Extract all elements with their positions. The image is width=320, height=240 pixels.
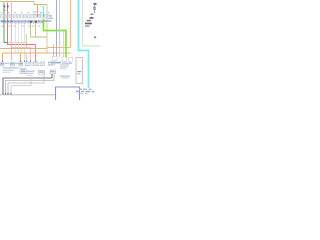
ground wire dark bbox=[3, 74, 52, 93]
text under cyan end bbox=[76, 89, 94, 95]
wire gray nested 2 bbox=[6, 75, 55, 94]
wire cyan drop x43.5 bbox=[43, 6, 45, 15]
wire CYAN bbox=[79, 0, 89, 88]
connector bottom-middle band bbox=[26, 62, 52, 66]
connector top band text row bbox=[0, 20, 50, 23]
pin dots under mid connectors bbox=[2, 61, 36, 62]
splice boxes above ground line bbox=[39, 70, 56, 74]
wire pale green bbox=[83, 0, 101, 46]
top band title text bbox=[3, 10, 5, 11]
wire ORANGE bus y53 bbox=[3, 52, 71, 54]
wire orange drop x20.5 bbox=[20, 53, 22, 61]
band density overlay bbox=[1, 15, 48, 17]
wire tan vertical x26.5 bbox=[26, 34, 28, 49]
wire tan vertical pair from top band bbox=[30, 23, 32, 37]
pins bottom-left bbox=[2, 93, 11, 95]
wire color labels under band bbox=[1, 25, 40, 26]
connector bottom-left text bbox=[1, 63, 22, 73]
band trailing text right bbox=[49, 15, 53, 22]
wire tan horizontal y48.5 bbox=[0, 48, 47, 50]
label text G200 area bbox=[60, 75, 70, 78]
wire pink branch y47.5 bbox=[12, 48, 31, 61]
wire TAN bus top bbox=[0, 2, 47, 5]
wire tan stub x26.5 lower bbox=[26, 53, 28, 61]
wire blue-gray verticals bbox=[56, 0, 58, 57]
connector bottom-left boxes bbox=[1, 62, 23, 66]
wire tan drop x47 bbox=[46, 5, 48, 54]
wire white drop x63.5 bbox=[63, 32, 65, 58]
wire pink-red drop x35.5 bbox=[35, 45, 37, 61]
box bottom-right blue bbox=[56, 87, 80, 101]
connector top band labels above bbox=[1, 12, 50, 13]
wire LIME bbox=[44, 19, 67, 58]
small mark right mid bbox=[94, 36, 96, 38]
wire RED left bbox=[8, 3, 36, 45]
component right top bbox=[91, 3, 97, 15]
wire tan horizontal y37 bbox=[31, 36, 48, 38]
wire orange right y47.5 bbox=[47, 47, 71, 49]
wire khaki continuation y42.5 bbox=[8, 42, 27, 44]
wire gray nested 3 bbox=[8, 75, 44, 94]
wire white faint verticals bbox=[15, 23, 17, 53]
connector top band dark specks bbox=[3, 15, 44, 23]
connector mid-right band bbox=[53, 57, 73, 62]
wire gray nested 4 bbox=[11, 77, 31, 94]
box bottom-left top edge bbox=[0, 94, 56, 96]
label block right bbox=[85, 17, 94, 27]
splice label box S206 bbox=[20, 68, 26, 73]
wire orange drop left bbox=[2, 53, 4, 61]
wire GREEN left bbox=[4, 3, 8, 43]
box right tall white bbox=[76, 58, 83, 84]
connector top band cell boxes bbox=[1, 12, 51, 18]
wire orange drop x37.5 bbox=[37, 5, 39, 16]
wire PINK left bbox=[11, 3, 13, 61]
wire orange vertical x70.5 bbox=[70, 0, 72, 48]
